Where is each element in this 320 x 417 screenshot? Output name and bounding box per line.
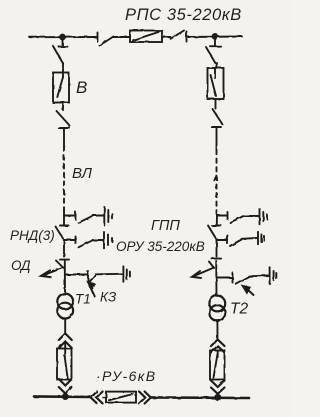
- svg-text:ВЛ: ВЛ: [72, 165, 93, 182]
- ground (earthing switch 2 right): [258, 232, 264, 244]
- earthing switch 1 right: blade: [230, 216, 244, 223]
- earthing switch 2 left: contact tick: [75, 237, 77, 244]
- disconnector below В2 (blade): [213, 109, 223, 125]
- callout arrow to КЗ right blade: [242, 285, 254, 295]
- wire: right tap stub: [214, 38, 216, 45]
- ground (КЗ right): [270, 267, 277, 283]
- svg-text:КЗ: КЗ: [100, 290, 117, 305]
- label РНД(3): [10, 228, 55, 243]
- earthing switch 1 left: contact tick: [75, 212, 77, 219]
- disconnector РНД left: blade: [56, 227, 64, 239]
- circuit breaker В2: [208, 68, 224, 99]
- disconnector right contact tick: [186, 32, 188, 42]
- disconnector QS right (fixed contact bar): [210, 45, 221, 47]
- disconnector РНД right: blade: [208, 226, 216, 239]
- КЗ right: contact tick: [232, 273, 234, 283]
- wire: supply line into РПС: [113, 36, 130, 38]
- wire: РПС to right disconnector: [162, 36, 171, 38]
- svg-text:ГПП: ГПП: [151, 218, 180, 234]
- circuit breaker В1: [53, 73, 69, 103]
- node: left tap junction: [60, 35, 65, 40]
- label ГПП: [151, 218, 180, 234]
- label КЗ: [100, 290, 117, 305]
- label ОРУ 35-220кВ: [116, 239, 205, 254]
- label Т1: [75, 292, 91, 307]
- opener right: blade with arrow: [192, 262, 214, 279]
- svg-text:В: В: [76, 78, 87, 97]
- bus tie drawout chevrons (right, pointing right): [139, 392, 151, 404]
- 6kV circuit breaker cell (left): [57, 342, 72, 380]
- wire: ОД to transformer Т1: [64, 261, 66, 294]
- opener ОД: blade with arrow: [41, 261, 64, 278]
- short-circuiter КЗ branch (left): stub: [65, 274, 88, 276]
- callout arrow to КЗ blade: [87, 281, 95, 296]
- ground (earthing switch 1 right): [260, 209, 268, 225]
- wire: branch1 to РНД left: [63, 216, 65, 226]
- 6kV busbar (right section): [151, 396, 249, 399]
- КЗ left: wire to earth: [96, 273, 123, 276]
- earthing switch 2 left: blade: [79, 240, 93, 247]
- drawout contact chevrons (below right 6kV breaker): [211, 381, 225, 394]
- drawout contact chevrons (above right 6kV breaker): [211, 340, 225, 353]
- transformer Т1: [57, 294, 73, 319]
- drawout contact chevrons (below left 6kV breaker): [59, 379, 72, 394]
- wire: between branch2 and ОД right: [216, 240, 218, 257]
- short-circuiter КЗ branch (right): stub: [216, 277, 233, 279]
- transformer Т2: [209, 296, 225, 321]
- ground (earthing switch 2 left): [104, 232, 112, 248]
- КЗ left: contact tick: [87, 271, 89, 282]
- disconnector below В2 (fixed contact bar): [212, 126, 222, 128]
- wire: Т1 to drawout breaker: [64, 318, 66, 334]
- svg-text:РПС 35-220кВ: РПС 35-220кВ: [125, 6, 242, 24]
- wire: blade to breaker В1: [62, 63, 64, 73]
- wire: breaker В1 to lower disconnector: [62, 103, 64, 111]
- node: left connection to 6kV bus: [63, 394, 68, 399]
- bus tie breaker cell: [106, 392, 136, 403]
- wire: into substation, right: [216, 213, 219, 216]
- wire: left tap stub: [62, 39, 64, 46]
- disconnector QS left (fixed contact bar): [59, 46, 68, 48]
- fuse-switch РПС: [130, 31, 162, 43]
- disconnector QS right (blade): [206, 47, 215, 63]
- label ВЛ (overhead line): [72, 165, 93, 182]
- earthing switch 2 right: contact tick: [227, 236, 229, 244]
- disconnector blade (supply line, right): [171, 31, 185, 39]
- wire: blade to breaker В2: [216, 63, 217, 68]
- label Т2: [230, 301, 248, 318]
- label РПС 35-220кВ: [125, 6, 242, 24]
- disconnector QS left (blade): [53, 46, 63, 64]
- earthing switch branch 2 (left): stub: [64, 239, 76, 241]
- svg-text:Т2: Т2: [230, 301, 248, 318]
- disconnector РНД left: fixed contact bar: [60, 225, 69, 227]
- bus tie drawout chevrons (left, pointing left): [91, 392, 103, 404]
- svg-text:·РУ-6кВ: ·РУ-6кВ: [96, 368, 157, 384]
- wire: into substation, left: [63, 210, 65, 216]
- wire: top supply line, left segment: [30, 36, 98, 38]
- earthing switch branch 1 (left): stub: [64, 215, 76, 217]
- КЗ left: blade: [89, 275, 96, 283]
- svg-text:Т1: Т1: [75, 292, 91, 307]
- wire: top supply line, right segment: [187, 36, 242, 39]
- earthing switch branch 1 (right): stub: [217, 215, 228, 217]
- disconnector in supply line (left contact tick): [97, 33, 99, 42]
- node: right tap junction: [213, 34, 218, 39]
- opener ОД: fixed contact bar: [60, 259, 69, 261]
- earthing switch branch 2 (right): stub: [217, 239, 228, 241]
- label В (breaker): [76, 78, 87, 97]
- 6kV busbar (left section): [34, 395, 91, 398]
- ground (earthing switch 1 left): [104, 207, 112, 225]
- wire: right line (dashed continuation): [214, 150, 216, 213]
- wire: solid start of right line: [216, 128, 218, 150]
- КЗ right: blade: [236, 277, 249, 284]
- wire: overhead line ВЛ (dashed continuation): [63, 147, 65, 210]
- wire: Т2 to drawout breaker: [216, 321, 218, 340]
- 6kV circuit breaker cell (right): [210, 351, 225, 380]
- disconnector below В1 (fixed contact bar): [59, 127, 70, 129]
- wire: branch1 to РНД right: [216, 216, 218, 226]
- wire: opener to transformer Т2: [215, 261, 217, 296]
- node: right connection to 6kV bus: [215, 395, 220, 400]
- disconnector below В1 (blade): [57, 111, 71, 126]
- drawout contact chevrons (above left 6kV breaker): [59, 334, 72, 349]
- svg-text:РНД(3): РНД(3): [10, 228, 55, 243]
- label РУ-6кВ: [96, 368, 157, 384]
- wire: breaker В2 down: [215, 99, 217, 109]
- wire: chevron to tie breaker: [103, 396, 106, 398]
- label ОД: [11, 258, 31, 273]
- svg-text:ОД: ОД: [11, 258, 31, 273]
- earthing switch 2 right: wire to earth: [242, 237, 257, 240]
- earthing switch 2 left: wire to earth: [93, 239, 104, 241]
- wire: between branch2 and ОД: [63, 240, 65, 257]
- earthing switch 1 left: wire to earth: [93, 215, 104, 217]
- ground (КЗ left): [123, 266, 129, 281]
- earthing switch 1 right: contact tick: [227, 212, 229, 219]
- opener right: fixed contact bar: [212, 258, 222, 260]
- earthing switch 2 right: blade: [230, 240, 242, 247]
- disconnector РНД right: fixed contact bar: [212, 225, 221, 227]
- wire: solid start of overhead line: [63, 128, 65, 147]
- КЗ right: wire to earth: [249, 275, 268, 278]
- disconnector blade (supply line, left): [100, 37, 114, 46]
- svg-text:ОРУ 35-220кВ: ОРУ 35-220кВ: [116, 239, 205, 254]
- earthing switch 1 right: wire to earth: [244, 215, 259, 217]
- earthing switch 1 left: blade: [79, 216, 93, 223]
